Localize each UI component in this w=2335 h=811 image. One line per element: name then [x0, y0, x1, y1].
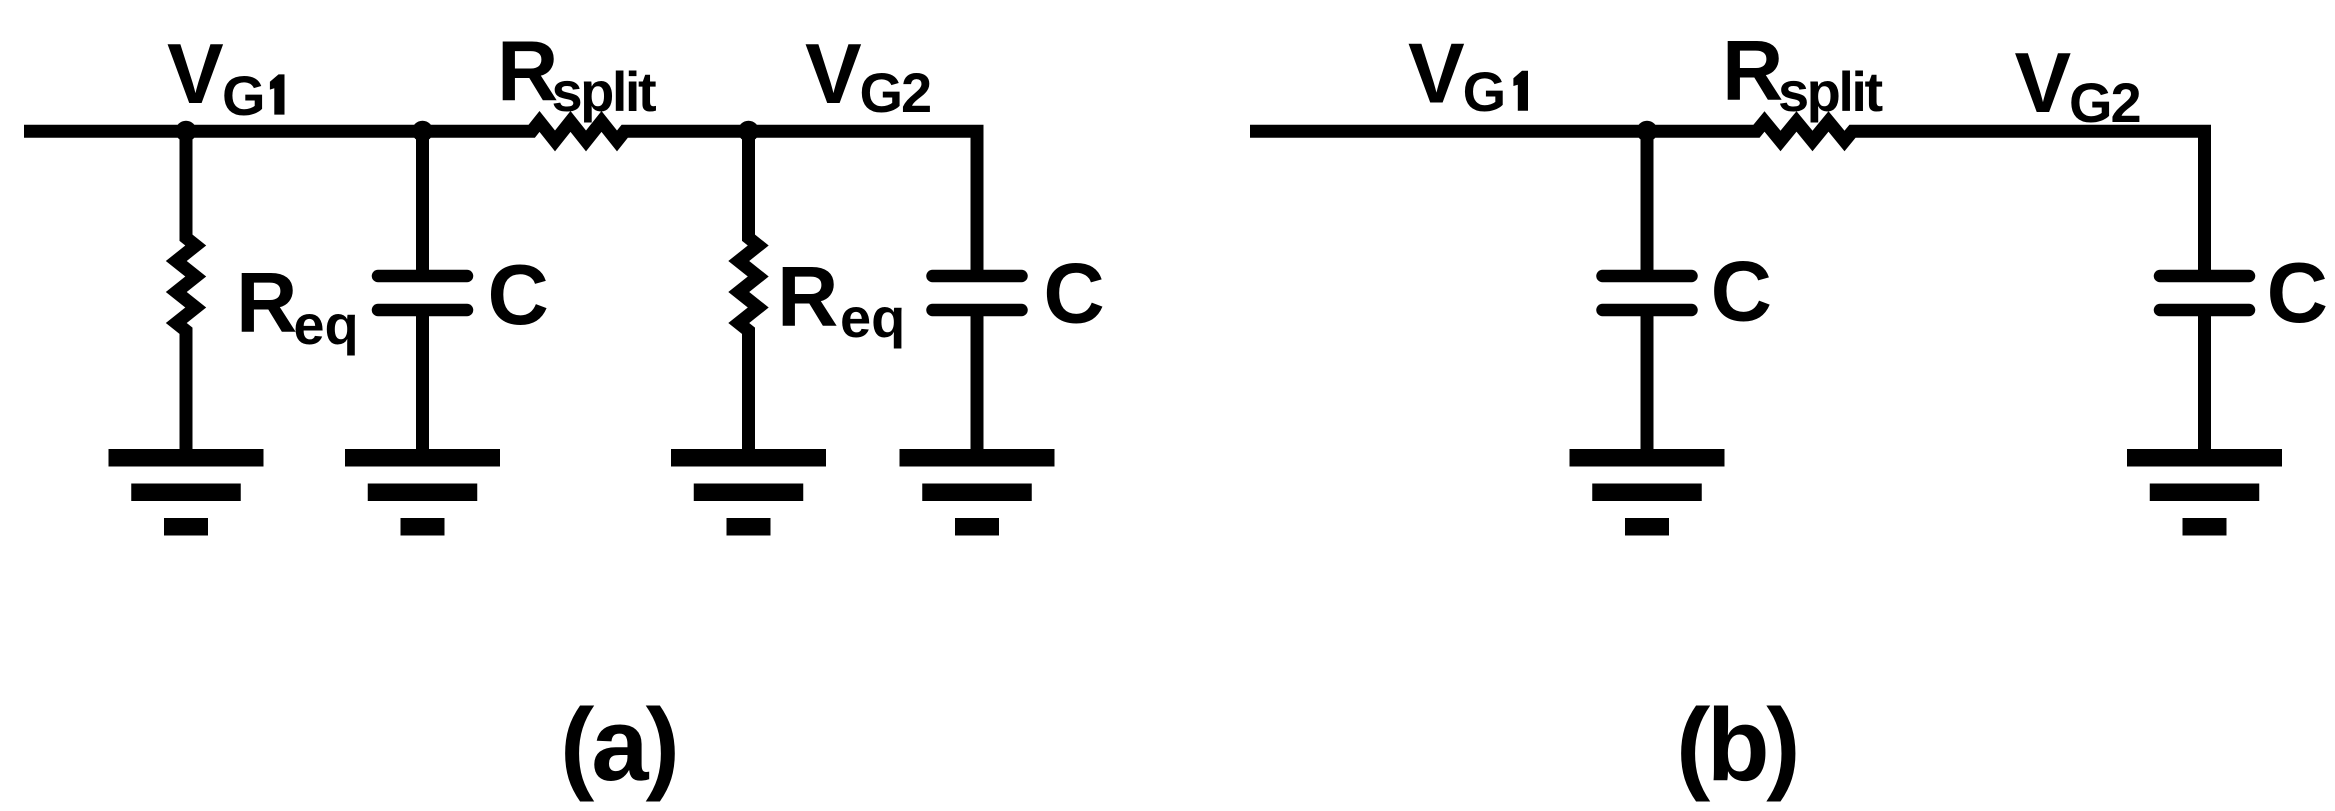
svg-text:G: G: [222, 64, 266, 127]
label C1 (b): [1711, 245, 1772, 340]
wire C1 node (a) down to capacitor: [416, 131, 429, 272]
ground under C1 (b): [1570, 449, 1725, 536]
svg-text:G2: G2: [2069, 71, 2140, 134]
svg-text:C: C: [1043, 247, 1104, 342]
ground under Req1: [109, 449, 264, 536]
wire C1 (a) down to ground: [416, 314, 429, 455]
svg-text:C: C: [488, 248, 549, 343]
node C1 branch (b) junction dot: [1637, 121, 1658, 142]
label VG1 (a): [167, 27, 285, 127]
caption (b): [1676, 687, 1797, 802]
label Req1: [236, 256, 359, 356]
svg-text:split: split: [552, 60, 656, 123]
svg-text:(b): (b): [1676, 687, 1797, 802]
node VG1 (a) junction dot: [176, 121, 197, 142]
wire C2 (a) down to ground: [971, 314, 984, 455]
capacitor C1 (b) plates: [1603, 276, 1692, 310]
resistor Req2 branch: wire, zigzag, wire to ground: [739, 131, 759, 455]
label C1 (a): [488, 248, 549, 343]
svg-text:V: V: [167, 27, 224, 122]
label Req2: [777, 250, 905, 349]
caption (a): [560, 687, 677, 802]
svg-text:(a): (a): [560, 687, 677, 802]
ground under C2 (a): [900, 449, 1055, 536]
svg-text:R: R: [497, 25, 558, 120]
label C2 (b): [2267, 246, 2328, 341]
label Rsplit (b): [1722, 24, 1882, 123]
label Rsplit (a): [497, 25, 656, 124]
label VG2 (a): [805, 27, 930, 124]
svg-text:C: C: [2267, 246, 2328, 341]
svg-text:V: V: [1408, 27, 1465, 122]
ground under Req2: [671, 449, 826, 536]
svg-text:eq: eq: [840, 286, 905, 349]
capacitor C2 (a) plates: [933, 276, 1022, 310]
svg-text:R: R: [1722, 24, 1783, 119]
node VG2 (a) junction dot: [738, 121, 759, 142]
svg-text:split: split: [1778, 60, 1882, 123]
svg-text:eq: eq: [293, 293, 358, 356]
wire C1 node (b) down to capacitor: [1641, 131, 1654, 272]
svg-text:R: R: [777, 250, 838, 345]
svg-text:V: V: [2015, 36, 2072, 131]
label VG2 (b): [2015, 36, 2140, 134]
svg-text:G2: G2: [860, 61, 931, 124]
svg-text:G: G: [1463, 60, 1507, 123]
resistor Req1 branch: wire, zigzag, wire to ground: [176, 131, 196, 455]
wire C2 (b) down to ground: [2198, 314, 2211, 455]
label VG1 (b): [1408, 27, 1528, 124]
label C2 (a): [1043, 247, 1104, 342]
capacitor C1 (a) plates: [378, 276, 467, 310]
svg-text:R: R: [236, 256, 297, 351]
wire C1 (b) down to ground: [1641, 314, 1654, 455]
svg-text:V: V: [805, 27, 862, 122]
capacitor C2 (b) plates: [2160, 276, 2249, 310]
wire main bus (b) with resistor Rsplit zigzag and corner drop to C2: [1250, 121, 2205, 272]
ground under C2 (b): [2127, 449, 2282, 536]
wire main bus (a) with resistor Rsplit zigzag and corner drop to C2: [24, 121, 977, 272]
node C1 branch (a) junction dot: [412, 121, 433, 142]
svg-text:C: C: [1711, 245, 1772, 340]
ground under C1 (a): [345, 449, 500, 536]
